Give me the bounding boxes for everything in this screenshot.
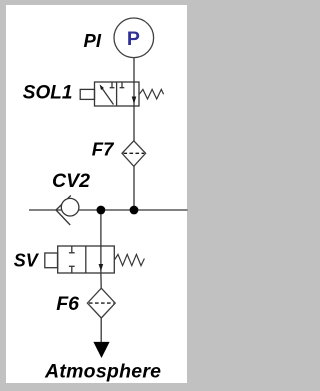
svg-text:SV: SV — [14, 251, 40, 271]
pass-through line right cell — [100, 246, 102, 273]
valve body — [58, 246, 115, 273]
wire SOL1 to F7 — [133, 106, 135, 141]
junction node left — [97, 206, 106, 215]
wire F6 to atmosphere arrow — [100, 318, 102, 344]
valve SOL1 — [80, 82, 163, 106]
pass-through line right cell — [133, 82, 135, 106]
wire SV to F6 — [100, 273, 102, 289]
solenoid actuator — [45, 253, 58, 268]
blocked port bottom — [71, 266, 73, 273]
atmosphere vent arrow — [93, 342, 109, 358]
blocked port T1 — [111, 82, 113, 88]
svg-text:F7: F7 — [92, 139, 115, 160]
blocked port T2 — [121, 82, 123, 88]
wire F7 to junction — [133, 166, 135, 210]
flow arrow left cell — [101, 87, 114, 105]
valve body — [95, 82, 140, 106]
valve SV — [45, 246, 145, 273]
spring SOL1 — [139, 89, 163, 99]
gauge PI — [114, 18, 154, 58]
blocked port top — [71, 246, 73, 253]
wire junction to SV — [100, 210, 102, 246]
svg-text:PI: PI — [84, 30, 102, 51]
svg-text:CV2: CV2 — [52, 170, 90, 192]
junction node right — [130, 206, 139, 215]
filter F7 — [122, 141, 146, 167]
wire horizontal supply line — [29, 209, 188, 211]
svg-text:P: P — [127, 28, 140, 50]
check valve CV2 — [56, 196, 79, 226]
svg-text:Atmosphere: Atmosphere — [44, 361, 161, 383]
wire PI to SOL1 — [133, 58, 135, 83]
spring SV — [115, 254, 145, 265]
filter F6 — [87, 288, 115, 318]
svg-text:SOL1: SOL1 — [23, 83, 73, 104]
svg-text:F6: F6 — [56, 293, 79, 315]
solenoid actuator — [80, 89, 94, 99]
